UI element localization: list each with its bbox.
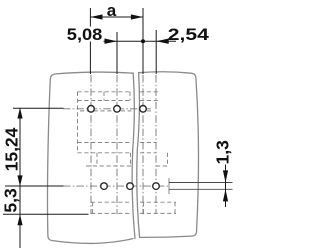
svg-text:2,54: 2,54 [168,25,210,44]
svg-text:1,3: 1,3 [213,140,233,165]
svg-text:5,08: 5,08 [67,25,103,44]
svg-text:5,3: 5,3 [1,188,21,213]
svg-text:15,24: 15,24 [1,127,21,171]
svg-text:a: a [107,1,117,20]
